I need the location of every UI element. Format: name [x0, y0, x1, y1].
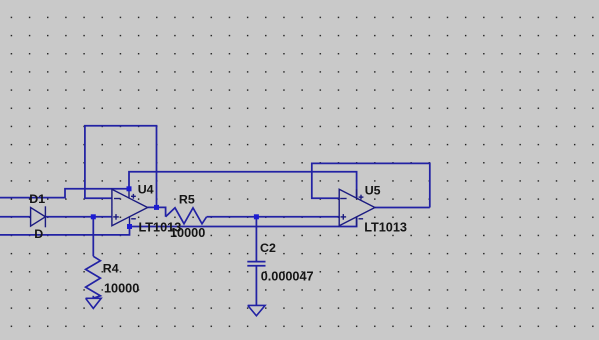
node U4 V- [127, 224, 132, 229]
wire R4 bottom to ground [92, 296, 94, 298]
op-amp U4 [112, 189, 148, 227]
wire C2 tap down [255, 217, 257, 262]
wire left input D to U4 V- (steps up) [0, 227, 130, 235]
wire diode cathode to U4 In+ [45, 216, 112, 218]
wire left input to diode anode [0, 216, 31, 218]
svg-text:U5: U5 [365, 183, 381, 197]
svg-text:U4: U4 [138, 182, 154, 196]
svg-text:D: D [34, 227, 43, 241]
svg-text:R4: R4 [103, 262, 119, 276]
node C2 tap [254, 214, 259, 219]
wire U5 output [375, 207, 430, 209]
node U4 output [154, 205, 159, 210]
wire U4 feedback loop output to In- [85, 126, 157, 208]
wire U5 feedback loop output to In- [312, 163, 430, 207]
op-amp U5 [339, 189, 375, 226]
wire U4 output to R5 [148, 207, 166, 216]
wire V- rail U4 to U5 [130, 217, 357, 227]
ground (R4) [86, 298, 102, 308]
svg-text:R5: R5 [179, 192, 195, 206]
resistor R5 [166, 208, 207, 224]
svg-text:10000: 10000 [104, 281, 139, 295]
svg-text:0.000047: 0.000047 [261, 269, 314, 283]
wire C2 bottom to ground [255, 266, 257, 305]
ground (C2) [248, 305, 265, 315]
wire U4 V+ pin up to long top rail to U5 V+ [129, 172, 357, 198]
wire R5 to U5 In+ [207, 216, 340, 218]
capacitor C2 [247, 262, 265, 266]
resistor R4 [86, 256, 101, 298]
svg-text:LT1013: LT1013 [364, 220, 407, 234]
wire left input to U4 V+ (steps up) [0, 189, 129, 198]
node U4 V+ [127, 186, 132, 191]
svg-text:10000: 10000 [170, 226, 205, 240]
wire R4 tap down [92, 217, 94, 256]
svg-text:C2: C2 [260, 241, 276, 255]
node R4 tap [91, 214, 96, 219]
svg-text:D1: D1 [29, 192, 45, 206]
diode D1 [31, 206, 46, 227]
